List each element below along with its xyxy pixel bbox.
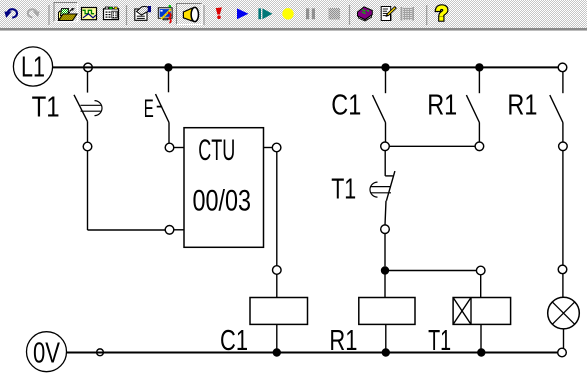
svg-text:R1: R1 (329, 325, 357, 357)
svg-text:R1: R1 (427, 90, 457, 122)
svg-text:C1: C1 (331, 90, 361, 122)
svg-text:CTU: CTU (198, 134, 235, 167)
svg-text:T1: T1 (428, 325, 451, 357)
svg-text:T1: T1 (331, 174, 356, 206)
svg-text:E: E (144, 95, 154, 123)
svg-text:?: ? (436, 3, 448, 25)
svg-text:T1: T1 (32, 92, 60, 124)
svg-text:00/03: 00/03 (193, 185, 252, 218)
svg-text:C1: C1 (220, 325, 248, 357)
svg-text:L1: L1 (21, 52, 45, 84)
svg-text:0V: 0V (33, 337, 60, 369)
svg-text:R1: R1 (507, 90, 537, 122)
svg-text:-: - (156, 93, 163, 118)
